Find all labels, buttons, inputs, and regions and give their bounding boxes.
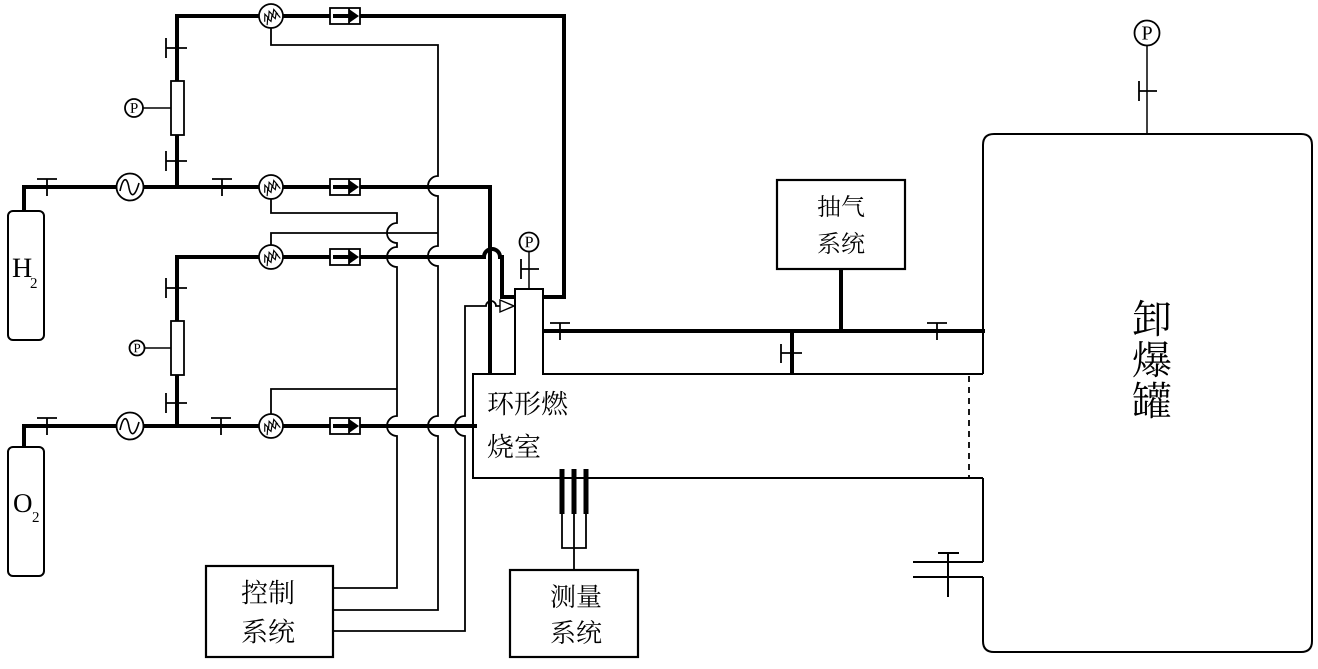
controller flow regulator on O2 main <box>259 414 283 438</box>
regulator pressure regulator on H2 main <box>117 174 144 201</box>
valve duct divider <box>781 344 802 363</box>
wire pump line (from suction system box to duct top) <box>839 269 843 333</box>
controller flow regulator on H2 main <box>259 175 283 199</box>
wire control line from top-branch regulator (x=438, jogs over pipes) <box>271 28 438 610</box>
wire O2 main line (cylinder to chamber left wall) <box>24 426 477 449</box>
controller flow regulator on second line <box>259 245 283 269</box>
valve duct top left <box>550 323 570 340</box>
wire H2 main line (cylinder to chamber top inlet) <box>24 185 490 374</box>
valve H2 riser lower <box>166 151 187 171</box>
wire H2 top branch line (riser x=177 up, along y=16, down x=563 into mixer neck right side) <box>175 14 566 297</box>
valve O2 riser lower <box>166 393 187 413</box>
label 环形燃烧室 (annular combustion chamber) <box>488 391 513 415</box>
gauge P pressure gauge at O2 rotameter <box>144 347 171 349</box>
box 抽气系统 (gas suction system) <box>777 180 905 269</box>
valve mixer pressure tap <box>521 259 539 279</box>
wire control line from O2-main regulator (joins x=397 line) <box>271 389 397 414</box>
check-valve on H2 main <box>330 179 360 195</box>
valve H2 riser upper <box>166 38 187 58</box>
flow tube rotameter on O2 riser <box>171 321 184 375</box>
flow tube rotameter on H2 riser <box>171 81 184 135</box>
gauge P at tank top <box>1146 46 1148 134</box>
cylinder O2 gas bottle <box>8 447 44 576</box>
wire duct divider at x=792 <box>790 329 794 375</box>
controller flow regulator on top branch <box>259 4 283 28</box>
label 卸爆罐 (detonation relief tank) <box>1133 300 1170 336</box>
cylinder H2 gas bottle <box>8 211 44 340</box>
wire control line from second-line regulator (joins x=438 line) <box>271 233 438 245</box>
valve O2 main line <box>211 418 231 435</box>
valve O2 cylinder outlet <box>37 418 57 435</box>
wire probe leads to measuring system <box>562 514 586 570</box>
regulator pressure regulator on O2 main <box>117 413 144 440</box>
check-valve on O2 main <box>330 418 360 434</box>
valve duct top right <box>927 323 947 340</box>
wire O2 riser + second gas line (hops over x=490, down into mixer neck left side) <box>177 249 515 428</box>
valve H2 main line <box>212 179 232 196</box>
gauge P pressure gauge at H2 rotameter <box>143 107 171 109</box>
wire tank drain stub (open pipe, bottom left of tank) <box>913 562 983 577</box>
wire control line from H2-main regulator (x=397) <box>271 199 397 588</box>
wire duct top edge (thick) <box>543 329 985 333</box>
valve H2 cylinder outlet <box>37 179 57 196</box>
check-valve on second line <box>330 249 360 265</box>
probe sensors in chamber bottom (3 bars) <box>560 469 565 514</box>
mixer neck (premix chamber above annular chamber) <box>515 289 543 375</box>
valve O2 riser upper <box>166 278 187 298</box>
annular combustion chamber outline <box>473 374 983 478</box>
valve tank drain valve <box>938 553 959 597</box>
gauge P at mixer neck <box>528 251 530 289</box>
node chamber-tank interface (dashed hidden edge) <box>968 376 970 477</box>
box 测量系统 (measuring system) <box>510 570 638 657</box>
wire igniter control line (x=465 up from control box, hops over O2 and H2 pipes) <box>334 301 500 631</box>
vessel relief tank (rounded rectangle, open where chamber and drain connect) <box>983 134 1312 652</box>
valve tank pressure tap <box>1139 81 1157 101</box>
igniter spark plug cone at mixer neck <box>500 300 514 312</box>
wire control box stubs already drawn; box 控制系统 (control system) <box>206 566 333 657</box>
check-valve on top branch <box>330 8 360 24</box>
